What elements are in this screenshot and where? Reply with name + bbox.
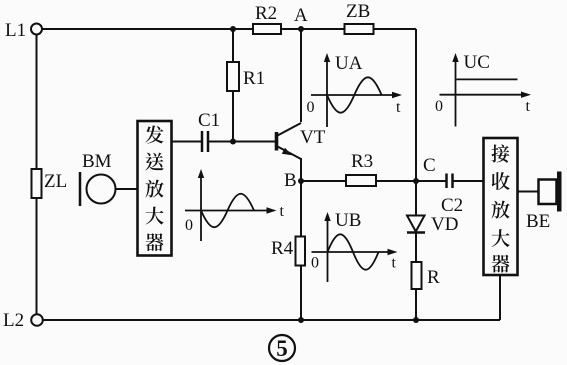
svg-text:UB: UB xyxy=(335,210,361,231)
svg-text:C1: C1 xyxy=(198,110,220,131)
svg-text:UC: UC xyxy=(464,52,490,73)
wire C2 to receive amp xyxy=(453,180,484,182)
waveform plot send amp output waveform xyxy=(185,169,285,241)
svg-text:ZB: ZB xyxy=(346,1,370,22)
svg-text:0: 0 xyxy=(435,98,443,115)
svg-text:R4: R4 xyxy=(271,238,294,259)
svg-text:B: B xyxy=(284,170,297,191)
wire collector to node A xyxy=(300,29,302,122)
resistor R1 xyxy=(227,62,239,91)
wire left bus xyxy=(36,35,38,315)
resistor R4 xyxy=(296,237,306,266)
svg-text:UA: UA xyxy=(335,53,363,74)
send amplifier box xyxy=(138,121,172,256)
wire bottom bus xyxy=(43,319,501,321)
svg-text:R2: R2 xyxy=(255,3,277,24)
terminal L2 xyxy=(31,314,43,326)
svg-text:VD: VD xyxy=(431,214,458,235)
svg-text:t: t xyxy=(280,203,285,220)
wire ZB to node C vertical xyxy=(415,29,417,181)
terminal L1 xyxy=(31,24,42,35)
transistor VT xyxy=(277,123,302,159)
svg-text:L1: L1 xyxy=(5,20,26,41)
svg-text:BM: BM xyxy=(82,151,112,172)
svg-text:0: 0 xyxy=(307,99,315,116)
receive amplifier text 接收放大器 xyxy=(491,144,509,162)
resistor ZL xyxy=(32,169,42,198)
wire node B row to C2 xyxy=(301,180,446,182)
junction R bottom xyxy=(413,317,419,323)
svg-text:5: 5 xyxy=(276,336,288,361)
junction R4 bottom xyxy=(298,317,304,323)
svg-text:0: 0 xyxy=(185,217,193,234)
svg-text:R: R xyxy=(427,267,440,288)
svg-text:t: t xyxy=(396,99,401,116)
resistor R3 xyxy=(346,175,376,186)
figure number 5 xyxy=(269,335,295,361)
wire emitter to node B xyxy=(300,158,302,181)
node C junction xyxy=(413,178,419,184)
wire send amp to C1 xyxy=(172,141,202,143)
svg-text:BE: BE xyxy=(526,211,550,232)
svg-text:R1: R1 xyxy=(243,68,265,89)
svg-text:A: A xyxy=(294,5,308,26)
wire node B to R4 to bottom bus xyxy=(300,181,302,320)
waveform plot UC xyxy=(435,52,531,127)
send amplifier text 发送放大器 xyxy=(145,125,163,143)
capacitor C1 xyxy=(202,131,208,152)
svg-text:0: 0 xyxy=(311,255,319,272)
svg-text:VT: VT xyxy=(300,127,326,148)
junction C1/R1 base xyxy=(230,139,236,145)
capacitor C2 xyxy=(447,174,453,189)
node A junction xyxy=(298,26,304,32)
resistor ZB xyxy=(345,24,374,34)
svg-text:C2: C2 xyxy=(441,195,463,216)
wire receive amp to BE xyxy=(518,191,539,193)
svg-text:t: t xyxy=(526,98,531,115)
wire node C through VD and R to bottom bus xyxy=(415,181,417,320)
receive amplifier box xyxy=(484,138,518,275)
svg-text:t: t xyxy=(392,255,397,272)
wire C1 to transistor base xyxy=(209,141,276,143)
svg-text:ZL: ZL xyxy=(44,171,67,192)
resistor R xyxy=(412,262,422,289)
earpiece BE xyxy=(539,172,562,212)
wire receive amp ground riser xyxy=(499,276,501,321)
wire R1 branch xyxy=(232,29,234,142)
node B junction xyxy=(298,178,304,184)
waveform plot UB xyxy=(311,210,398,282)
svg-text:L2: L2 xyxy=(3,310,24,331)
junction R1 top xyxy=(230,26,236,32)
svg-text:R3: R3 xyxy=(351,151,373,172)
svg-text:C: C xyxy=(423,155,436,176)
wire top bus xyxy=(42,28,417,30)
waveform plot UA xyxy=(307,53,403,127)
diode VD xyxy=(407,216,425,233)
wire BM to send amp xyxy=(116,188,138,190)
resistor R2 xyxy=(253,24,281,34)
microphone BM xyxy=(80,172,116,206)
